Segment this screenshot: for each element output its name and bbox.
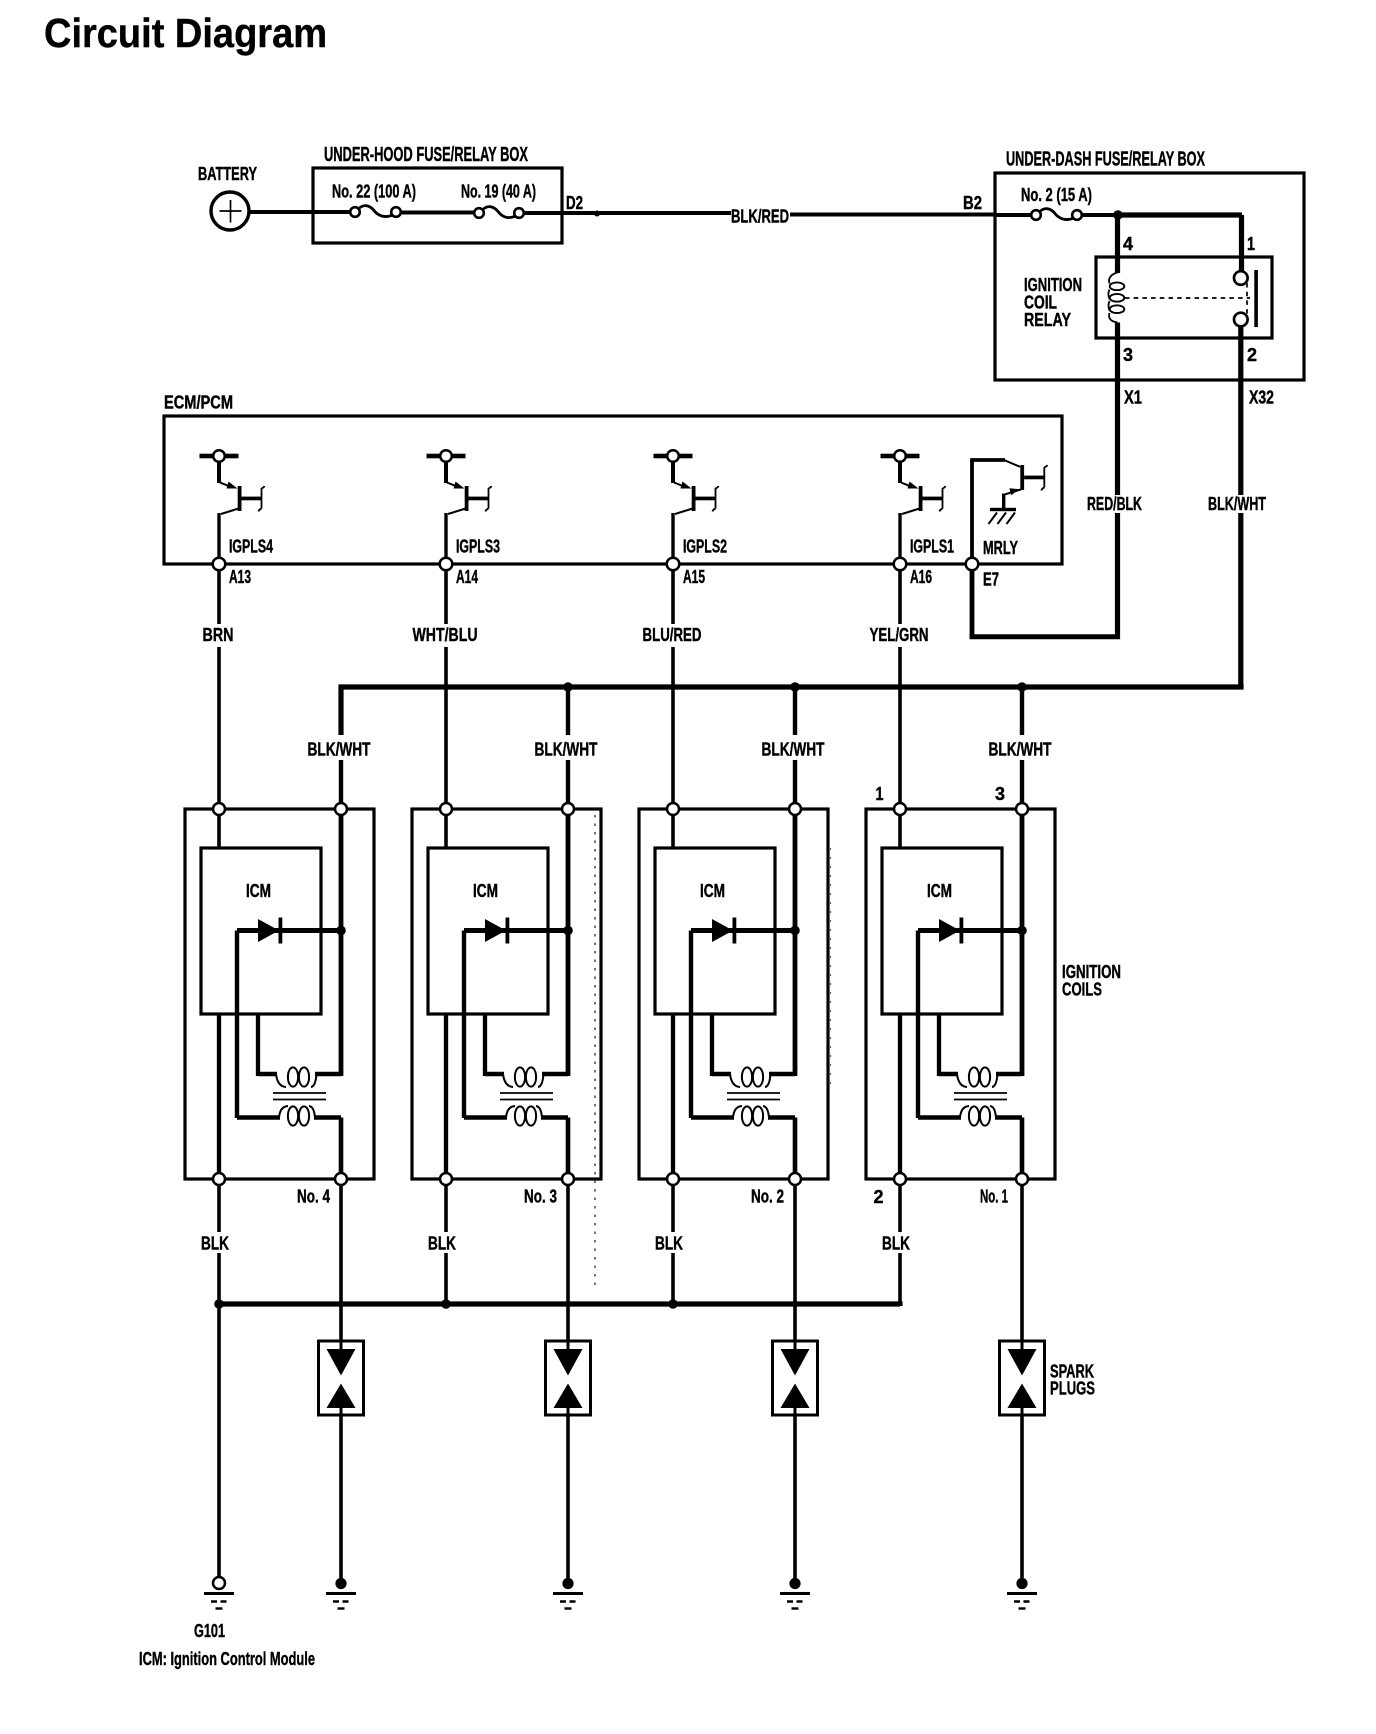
wire fuse 19 to node D2	[524, 211, 598, 215]
svg-text:No. 22 (100 A): No. 22 (100 A)	[332, 182, 416, 202]
wire ICM drive pin	[485, 1014, 504, 1076]
wire BLK/RED	[599, 207, 997, 227]
ground (spark plug 3)	[780, 1578, 810, 1609]
junction diode/power	[790, 926, 800, 936]
battery	[198, 164, 257, 230]
svg-text:X1: X1	[1124, 388, 1142, 408]
svg-text:ICM: ICM	[927, 881, 952, 901]
bottom pins (coil 4)	[894, 1173, 1028, 1185]
svg-text:BLK/WHT: BLK/WHT	[535, 740, 598, 760]
svg-text:BLK: BLK	[428, 1234, 456, 1254]
wire signal into ICM	[217, 813, 221, 849]
svg-text:BLK/WHT: BLK/WHT	[762, 740, 825, 760]
wire junction to relay pin 1	[1116, 215, 1243, 272]
wire YEL/GRN	[870, 570, 929, 805]
node A14	[440, 558, 478, 587]
svg-text:RELAY: RELAY	[1024, 310, 1071, 330]
wire battery to under-hood box	[249, 210, 315, 214]
wire diode anode to secondary	[916, 931, 920, 1119]
transistor MRLY	[970, 460, 1047, 559]
svg-text:BLK: BLK	[201, 1234, 229, 1254]
top pins (coil 4)	[894, 803, 1028, 815]
svg-text:3: 3	[995, 784, 1005, 804]
relay coil	[1108, 273, 1124, 323]
transistor IGPLS3	[427, 450, 492, 558]
svg-text:X32: X32	[1249, 388, 1274, 408]
relay armature dashed link	[1125, 283, 1250, 315]
relay contact 2	[1234, 313, 1248, 327]
svg-text:4: 4	[1123, 234, 1133, 254]
wire BRN	[203, 570, 234, 805]
svg-text:No. 1: No. 1	[980, 1187, 1008, 1207]
wire ICM drive pin	[258, 1014, 277, 1076]
ignition coil No. 3	[412, 809, 601, 1179]
transformer core (coil 3)	[727, 1093, 780, 1100]
transformer core (coil 4)	[954, 1093, 1007, 1100]
fuse No.2 (15 A)	[1021, 185, 1092, 220]
wire signal into ICM	[898, 813, 902, 849]
relay contact 1	[1234, 271, 1248, 285]
diode (coil 1)	[237, 918, 341, 944]
wire spark plug 3 to ground	[793, 1415, 797, 1579]
wire BLK (coil 4)	[882, 1185, 910, 1306]
svg-text:G101: G101	[194, 1621, 225, 1641]
node A16	[894, 558, 932, 587]
wire BLK/WHT (X32)	[1208, 327, 1266, 690]
wire B2 to fuse No.2	[995, 213, 1032, 217]
wire diode anode to secondary	[235, 931, 239, 1119]
svg-text:ICM: ICM	[473, 881, 498, 901]
svg-text:ECM/PCM: ECM/PCM	[164, 393, 233, 413]
svg-text:BLU/RED: BLU/RED	[643, 625, 702, 645]
secondary winding (coil 1)	[237, 1106, 341, 1126]
wire BLK (coil 3)	[655, 1185, 683, 1306]
label IGNITION COILS	[1062, 962, 1121, 1000]
svg-text:1: 1	[1247, 234, 1255, 254]
wire coil 3 to spark plug	[793, 1185, 797, 1342]
bottom pins (coil 1)	[213, 1173, 347, 1185]
label SPARK PLUGS	[1050, 1362, 1095, 1399]
secondary winding (coil 2)	[464, 1106, 568, 1126]
primary winding (coil 2)	[503, 1067, 568, 1087]
svg-text:BATTERY: BATTERY	[198, 164, 257, 184]
wire power vertical (coil 1)	[339, 813, 344, 1076]
ignition coil No. 1	[866, 809, 1055, 1179]
transformer core (coil 2)	[500, 1093, 553, 1100]
wire secondary to bottom pin	[566, 1118, 571, 1176]
transformer core (coil 1)	[273, 1093, 326, 1100]
svg-text:2: 2	[1247, 345, 1257, 365]
node E7	[966, 558, 999, 590]
svg-text:No. 19 (40 A): No. 19 (40 A)	[461, 182, 536, 202]
junction BLK/WHT drop 1	[308, 740, 371, 806]
svg-text:BLK/WHT: BLK/WHT	[308, 740, 371, 760]
bottom pins (coil 2)	[440, 1173, 574, 1185]
svg-text:2: 2	[874, 1187, 884, 1207]
spark plug 1	[319, 1341, 364, 1415]
diode (coil 4)	[918, 918, 1022, 944]
relay switch bar	[1254, 270, 1258, 327]
chassis ground (MRLY emitter)	[989, 508, 1017, 524]
wire fuse 22 to fuse 19	[401, 211, 475, 215]
svg-text:BLK: BLK	[882, 1234, 910, 1254]
diode (coil 2)	[464, 918, 568, 944]
wire power vertical (coil 4)	[1020, 813, 1025, 1076]
svg-text:ICM: Ignition Control Module: ICM: Ignition Control Module	[139, 1649, 315, 1669]
svg-text:BLK/WHT: BLK/WHT	[1208, 494, 1266, 514]
ICM (coil 2)	[428, 848, 548, 1014]
wire power vertical (coil 2)	[566, 813, 571, 1076]
junction bus col2	[441, 1299, 451, 1309]
wire WHT/BLU	[413, 570, 478, 805]
fuse No.19 (40 A)	[461, 182, 536, 218]
ICM (coil 3)	[655, 848, 775, 1014]
svg-text:UNDER-HOOD FUSE/RELAY BOX: UNDER-HOOD FUSE/RELAY BOX	[324, 144, 528, 166]
junction diode/power	[336, 926, 346, 936]
svg-text:COILS: COILS	[1062, 980, 1102, 1000]
svg-text:No. 2 (15 A): No. 2 (15 A)	[1021, 185, 1092, 205]
ignition coil relay K1	[1024, 257, 1272, 338]
ground bus BLK	[219, 1304, 900, 1307]
svg-text:YEL/GRN: YEL/GRN	[870, 625, 929, 645]
wire secondary to bottom pin	[339, 1118, 344, 1176]
primary winding (coil 1)	[276, 1067, 341, 1087]
wire E7 to RED/BLK	[970, 570, 1120, 639]
transistor IGPLS4	[200, 450, 265, 558]
ICM (coil 4)	[882, 848, 1002, 1014]
transistor IGPLS2	[654, 450, 719, 558]
wire signal into ICM	[444, 813, 448, 849]
ICM (coil 1)	[201, 848, 321, 1014]
ECM/PCM module	[164, 393, 1062, 565]
svg-text:ICM: ICM	[700, 881, 725, 901]
svg-text:1: 1	[876, 784, 884, 804]
svg-text:BLK: BLK	[655, 1234, 683, 1254]
wire secondary to bottom pin	[1020, 1118, 1025, 1176]
svg-text:IGPLS1: IGPLS1	[910, 537, 954, 557]
svg-text:RED/BLK: RED/BLK	[1087, 494, 1142, 514]
under-dash fuse/relay box	[995, 149, 1304, 381]
svg-text:IGPLS2: IGPLS2	[683, 537, 727, 557]
junction BLK/WHT drop 2	[535, 682, 598, 805]
wire power vertical (coil 3)	[793, 813, 798, 1076]
wire ghost artifact 2	[830, 848, 832, 1085]
junction	[1113, 210, 1123, 220]
wire BLK (coil 2)	[428, 1185, 456, 1306]
spark plug 3	[773, 1341, 818, 1415]
junction BLK/WHT drop 4	[989, 682, 1052, 805]
wire diode anode to secondary	[689, 931, 693, 1119]
diode (coil 3)	[691, 918, 795, 944]
wire ghost artifact	[594, 815, 596, 1290]
secondary winding (coil 3)	[691, 1106, 795, 1126]
ignition coil No. 4	[185, 809, 374, 1179]
wire spark plug 1 to ground	[339, 1415, 343, 1579]
svg-text:Circuit Diagram: Circuit Diagram	[44, 10, 327, 56]
svg-text:A14: A14	[456, 567, 478, 587]
wire signal into ICM	[671, 813, 675, 849]
svg-text:No. 3: No. 3	[524, 1187, 557, 1207]
wire spark plug 4 to ground	[1020, 1415, 1024, 1579]
node D2	[566, 193, 600, 217]
wire box edge to fuse 22	[313, 210, 351, 214]
wire coil 2 to spark plug	[566, 1185, 570, 1342]
svg-text:WHT/BLU: WHT/BLU	[413, 625, 478, 645]
wire BLU/RED	[643, 570, 702, 805]
spark plug 4	[1000, 1341, 1045, 1415]
wire ICM ground pin	[898, 1014, 902, 1175]
wire secondary to bottom pin	[793, 1118, 798, 1176]
svg-text:No. 2: No. 2	[751, 1187, 784, 1207]
svg-text:MRLY: MRLY	[983, 538, 1018, 558]
top pins (coil 2)	[440, 803, 574, 815]
under-hood fuse/relay box	[313, 144, 562, 243]
primary winding (coil 3)	[730, 1067, 795, 1087]
top pins (coil 1)	[213, 803, 347, 815]
bottom pins (coil 3)	[667, 1173, 801, 1185]
wire BLK/WHT bus	[341, 684, 1241, 735]
wire RED/BLK (X1)	[1087, 323, 1142, 640]
secondary winding (coil 4)	[918, 1106, 1022, 1126]
wire BLK (coil 1)	[201, 1185, 229, 1306]
junction bus col3	[668, 1299, 678, 1309]
junction BLK/WHT drop 3	[762, 682, 825, 805]
svg-text:E7: E7	[983, 570, 999, 590]
wire ICM ground pin	[217, 1014, 221, 1175]
svg-text:A16: A16	[910, 567, 932, 587]
wire ICM ground pin	[671, 1014, 675, 1175]
wire ICM drive pin	[712, 1014, 731, 1076]
svg-text:A13: A13	[229, 567, 251, 587]
svg-text:B2: B2	[963, 193, 982, 213]
junction bus col1	[214, 1299, 224, 1309]
ground (spark plug 2)	[553, 1578, 583, 1609]
svg-text:IGPLS4: IGPLS4	[229, 537, 273, 557]
primary winding (coil 4)	[957, 1067, 1022, 1087]
svg-text:A15: A15	[683, 567, 705, 587]
wire spark plug 2 to ground	[566, 1415, 570, 1579]
fuse No.22 (100 A)	[332, 182, 416, 217]
svg-text:BRN: BRN	[203, 625, 234, 645]
junction diode/power	[563, 926, 573, 936]
wire to G101	[217, 1304, 221, 1578]
wire junction to relay pin 4	[1115, 215, 1120, 273]
spark plug 2	[546, 1341, 591, 1415]
svg-text:ICM: ICM	[246, 881, 271, 901]
svg-text:BLK/RED: BLK/RED	[731, 207, 789, 227]
wire coil 4 to spark plug	[1020, 1185, 1024, 1342]
wire ICM ground pin	[444, 1014, 448, 1175]
svg-text:IGPLS3: IGPLS3	[456, 537, 500, 557]
svg-text:3: 3	[1123, 345, 1133, 365]
transistor IGPLS1	[881, 450, 946, 558]
node A15	[667, 558, 705, 587]
svg-text:UNDER-DASH FUSE/RELAY BOX: UNDER-DASH FUSE/RELAY BOX	[1006, 149, 1205, 171]
svg-text:BLK/WHT: BLK/WHT	[989, 740, 1052, 760]
wire coil 1 to spark plug	[339, 1185, 343, 1342]
wire fuse 2 to junction	[1082, 213, 1115, 217]
wire ICM drive pin	[939, 1014, 958, 1076]
ground (spark plug 1)	[326, 1578, 356, 1609]
svg-text:D2: D2	[566, 193, 583, 213]
junction diode/power	[1017, 926, 1027, 936]
svg-text:PLUGS: PLUGS	[1050, 1379, 1095, 1399]
ground G101	[194, 1577, 234, 1641]
svg-text:No. 4: No. 4	[297, 1187, 330, 1207]
ground (spark plug 4)	[1007, 1578, 1037, 1609]
node A13	[213, 558, 251, 587]
wire diode anode to secondary	[462, 931, 466, 1119]
ignition coil No. 2	[639, 809, 828, 1179]
top pins (coil 3)	[667, 803, 801, 815]
